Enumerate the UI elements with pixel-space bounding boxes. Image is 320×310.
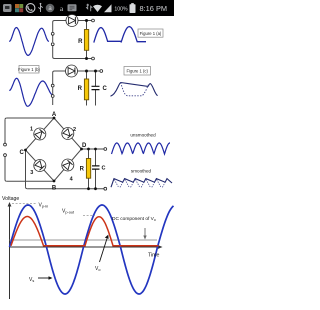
svg-text:4: 4 — [70, 177, 74, 183]
svg-text:R: R — [80, 167, 85, 173]
svg-text:Vp-out: Vp-out — [62, 208, 75, 214]
svg-text:Vp-in: Vp-in — [39, 202, 49, 208]
svg-text:C: C — [20, 150, 25, 156]
svg-text:smoothed: smoothed — [131, 169, 152, 174]
svg-text:2: 2 — [73, 127, 76, 133]
svg-text:unsmoothed: unsmoothed — [130, 133, 156, 138]
svg-text:1: 1 — [30, 127, 33, 133]
svg-text:DC component of Vo: DC component of Vo — [112, 216, 156, 222]
svg-text:B: B — [52, 185, 57, 191]
svg-text:3: 3 — [30, 170, 33, 176]
svg-text:R: R — [78, 86, 83, 92]
svg-text:Vs: Vs — [29, 277, 34, 283]
svg-text:A: A — [52, 112, 57, 118]
svg-text:Vo: Vo — [95, 266, 100, 272]
svg-text:Figure 1 (c): Figure 1 (c) — [126, 69, 148, 74]
svg-text:D: D — [82, 143, 87, 149]
svg-text:C: C — [103, 86, 108, 92]
svg-text:Voltage: Voltage — [2, 196, 19, 202]
svg-text:C: C — [102, 166, 106, 172]
svg-text:R: R — [78, 39, 83, 45]
svg-text:Figure 1 (b): Figure 1 (b) — [18, 67, 40, 72]
svg-text:Time: Time — [148, 252, 159, 258]
svg-text:Figure 1 (a): Figure 1 (a) — [140, 31, 162, 36]
